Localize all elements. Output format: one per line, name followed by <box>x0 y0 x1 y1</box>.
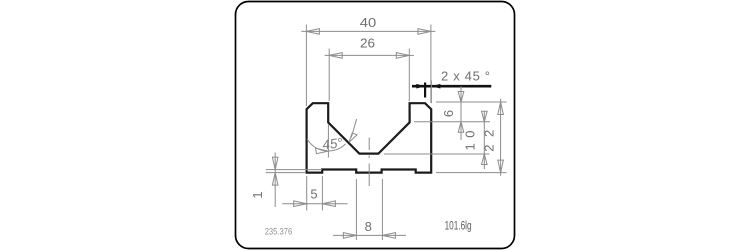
right side extension line: part top <box>436 101 507 103</box>
dimension 5: dimension line <box>282 203 347 205</box>
angle dimension 45deg: slope arrow with tail <box>349 119 357 142</box>
svg-text:5: 5 <box>310 187 317 202</box>
dimension 6: top arrow <box>458 92 464 103</box>
dimension 10: top arrow <box>482 111 488 122</box>
chamfer dimension 2 x 45deg: thick dimension line <box>412 85 491 88</box>
angle dimension 45deg: vertical extension line <box>327 124 329 158</box>
right side extension line: V flat bottom <box>384 153 489 155</box>
dimension 8: right arrow <box>382 233 395 239</box>
dimension 6: dimension line <box>460 86 462 140</box>
svg-text:2 x 45 °: 2 x 45 ° <box>441 69 490 84</box>
dimension 22: top arrow <box>498 102 504 115</box>
dimension 6: bottom arrow <box>458 122 464 133</box>
dimension 1: top arrow <box>272 157 278 170</box>
dimension 40: dimension line <box>301 30 435 32</box>
svg-text:8: 8 <box>365 219 372 234</box>
chamfer dimension: right solid arrow <box>432 84 441 89</box>
dimension 40: right arrow <box>418 29 431 35</box>
dimension 10: bottom arrow <box>482 154 488 165</box>
dimension 40: left arrow <box>306 29 319 35</box>
dimension 26: extension lines <box>329 49 409 102</box>
angle dimension 45deg: arc <box>307 139 346 151</box>
svg-text:235.376: 235.376 <box>265 227 293 238</box>
angle dimension 45deg: bottom arrow <box>316 148 329 154</box>
chamfer dimension: thick extension tick <box>424 83 426 98</box>
dimension 5: right arrow <box>322 201 335 207</box>
dimension 40: extension lines <box>306 25 431 107</box>
right side extension line: V wall bottom <box>414 121 490 123</box>
svg-text:6: 6 <box>441 110 456 117</box>
dimension 26: dimension line <box>325 54 414 56</box>
dimension 10: dimension line <box>483 111 485 169</box>
right side extension line: part bottom <box>436 172 507 174</box>
part outline (V-block cross-section) <box>307 103 432 172</box>
dimension 26: left arrow <box>329 53 342 59</box>
svg-text:26: 26 <box>360 36 375 51</box>
dimension 5: extension lines <box>307 176 323 210</box>
drawing sheet frame <box>236 2 515 249</box>
dimension 5: left arrow <box>294 201 307 207</box>
dimension 26: right arrow <box>396 53 409 59</box>
dimension 1: bottom arrow <box>272 173 278 186</box>
dimension 8: extension lines <box>356 179 382 240</box>
svg-text:40: 40 <box>360 15 377 30</box>
chamfer dimension: left solid arrow <box>416 84 425 89</box>
dimension 8: dimension line <box>333 234 406 236</box>
dimension 8: left arrow <box>343 233 356 239</box>
svg-text:1: 1 <box>250 191 265 198</box>
dimension 22: bottom arrow <box>498 160 504 173</box>
dimension 1: dimension line <box>274 153 276 208</box>
dimension 1: extension lines <box>266 170 322 173</box>
svg-text:45°: 45° <box>321 135 344 152</box>
svg-text:101.6lg: 101.6lg <box>445 221 472 233</box>
dimension 22: dimension line <box>500 99 502 176</box>
chamfer dimension: thin extension line <box>430 81 432 104</box>
centerline <box>368 138 370 187</box>
